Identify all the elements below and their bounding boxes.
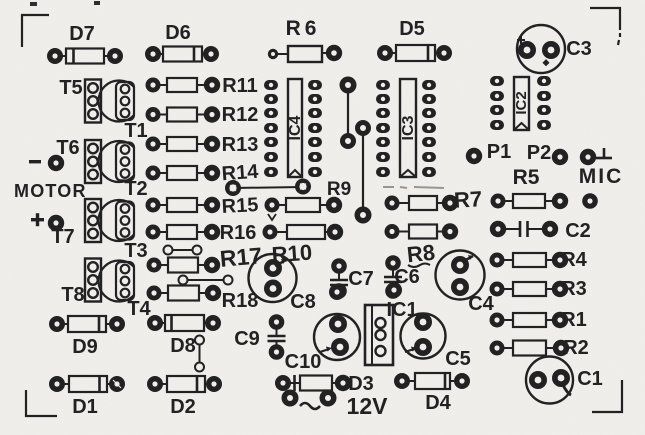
electrolytic capacitor C8 (249, 254, 316, 313)
terminal plus (31, 213, 64, 231)
wire jumper J2 (179, 276, 233, 285)
label AC tilde (300, 403, 320, 409)
resistor R1 (490, 309, 587, 331)
resistor R14 (146, 161, 261, 186)
corner mark bottom-left (26, 390, 57, 416)
electrolytic capacitor C1 (526, 357, 603, 404)
polarity arrow C5 (405, 349, 414, 352)
connector T6 (56, 137, 101, 183)
resistor R18 (147, 285, 259, 312)
pad AC input right (320, 390, 337, 407)
corner mark top-right (590, 8, 620, 30)
scan speck (30, 2, 37, 6)
resistor R12 (146, 104, 259, 126)
diode D3 (275, 373, 374, 395)
ground pad and symbol (580, 148, 612, 165)
pad P1 (466, 141, 511, 164)
wire jumper J3 vertical (195, 336, 204, 372)
pad node above C10 (329, 284, 345, 300)
resistor R7 (385, 195, 459, 211)
resistor R11 (146, 75, 258, 97)
electrolytic capacitor C3 (517, 25, 592, 73)
electrolytic capacitor C10 (285, 314, 360, 373)
diode D8 (147, 315, 221, 357)
transistor T2 (99, 141, 148, 200)
capacitor C2 (490, 220, 591, 242)
diode D5 (377, 18, 452, 61)
transistor T3 (99, 200, 148, 262)
connector T8 (61, 259, 101, 307)
pad arrow mark (268, 214, 276, 220)
resistor R17 (147, 242, 264, 273)
capacitor C7 (330, 258, 374, 299)
resistor R9 (265, 197, 343, 213)
wire link horizontal node (225, 179, 311, 197)
scan speck (94, 1, 100, 5)
transistor T1 (99, 81, 148, 143)
resistor R10 (263, 224, 344, 240)
wire jumper J1 (164, 246, 202, 255)
electrolytic capacitor C5 (401, 313, 471, 370)
pad D1 mark (113, 380, 121, 388)
faint trace marks (383, 187, 444, 188)
corner mark top-left (22, 15, 49, 47)
pad MIC (582, 193, 598, 209)
pad node above IC1 (386, 282, 402, 298)
resistor R3 (490, 278, 587, 300)
diode D6 (145, 22, 219, 62)
polarity mark C3 (542, 59, 549, 66)
pad AC input left (282, 390, 299, 407)
resistor R16 (146, 222, 257, 244)
IC IC4 (264, 79, 322, 177)
resistor R8 (385, 223, 459, 239)
terminal minus (29, 155, 64, 171)
resistor R15 (146, 194, 259, 218)
wire jumper W2 (355, 120, 372, 224)
IC IC2 (490, 76, 551, 130)
diode D9 (49, 316, 125, 358)
connector T5 (59, 77, 101, 123)
connector T7 (51, 199, 101, 248)
resistor R13 (146, 134, 259, 156)
diode D1 (49, 376, 125, 418)
resistor R6 (268, 17, 342, 62)
diode D7 (47, 23, 123, 64)
resistor R4 (490, 249, 588, 271)
electrolytic capacitor C4 (436, 251, 495, 316)
diode D4 (394, 373, 470, 414)
capacitor C9 (234, 314, 285, 360)
IC IC3 (376, 79, 436, 177)
IC IC1 voltage regulator (365, 299, 418, 365)
resistor R2 (490, 337, 589, 359)
capacitor C6 (384, 255, 420, 299)
pad P2 (527, 142, 568, 165)
resistor R5 (491, 193, 569, 209)
corner mark bottom-right (592, 380, 622, 412)
diode D2 (147, 376, 222, 418)
transistor T4 (99, 260, 152, 320)
polarity arrow C10 (320, 349, 329, 352)
wire jumper W1 (340, 77, 357, 150)
polarity mark C3 plus (517, 36, 525, 44)
